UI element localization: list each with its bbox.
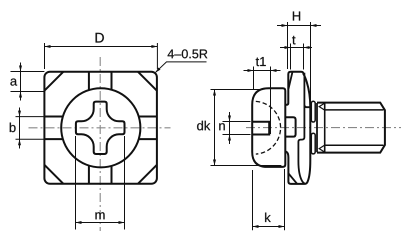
washer hole line right-lower horizontal — [138, 138, 157, 140]
washer hole line top-left vertical — [88, 72, 90, 90]
centerline axis (side view) — [246, 127, 401, 129]
dimension b extension lines — [16, 116, 45, 118]
dimension D label — [96, 33, 104, 43]
washer inner edge line — [298, 73, 305, 184]
corner chamfer top-right — [138, 72, 157, 91]
washer hole line left-lower horizontal — [44, 138, 62, 140]
dimension dk extension lines — [211, 89, 262, 91]
dimension b line with outside arrows — [19, 108, 21, 149]
thread minor line bottom — [324, 144, 384, 146]
dimension t1 extension lines — [253, 67, 255, 90]
dimension a label — [10, 79, 17, 86]
dimension D line — [45, 46, 158, 48]
dimension m line — [76, 222, 125, 224]
phillips cross recess — [76, 102, 125, 154]
corner chamfer bottom-left — [44, 165, 63, 184]
washer hole line bottom-right vertical — [111, 166, 113, 184]
corner chamfer bottom-right — [138, 165, 157, 184]
hidden recess arc (dashed) — [256, 101, 281, 154]
dimension H line with outside arrows — [277, 25, 321, 27]
dimension dk line — [214, 90, 216, 166]
washer side view outer profile — [286, 72, 311, 184]
screw head side view — [252, 88, 285, 167]
dimension H extension lines — [287, 22, 289, 69]
dimension n extension lines — [223, 121, 251, 123]
washer hole line bottom-left vertical — [88, 166, 90, 184]
centerline horizontal (front view) — [29, 127, 171, 129]
retaining ring upper lobe — [311, 101, 315, 122]
dimension t1 label — [256, 58, 259, 67]
washer fold line top — [289, 72, 293, 89]
neck end face — [316, 103, 318, 152]
thread full-form start — [324, 103, 326, 152]
dimension n line with outside arrows — [229, 112, 231, 144]
screw head circle — [61, 88, 140, 167]
dimension D extension lines — [44, 43, 46, 69]
dimension k extension lines — [252, 170, 254, 230]
thread minor line top — [324, 109, 384, 111]
dimension a extension line — [11, 91, 45, 93]
dimension k label — [265, 213, 271, 222]
dimension m label — [95, 212, 104, 219]
dimension H label — [293, 12, 300, 21]
neck boss — [285, 117, 295, 136]
retaining ring lower lobe — [311, 133, 315, 154]
washer hole line left-upper horizontal — [44, 116, 62, 118]
washer fold line bottom — [289, 174, 298, 184]
dimension t line with outside arrows — [280, 47, 312, 49]
centerline vertical (front view) — [99, 57, 101, 231]
leader 4-0.5R — [156, 62, 207, 72]
dimension a line with outside arrows — [20, 63, 22, 101]
dimension b label — [10, 123, 16, 133]
washer hole line top-right vertical — [111, 72, 113, 90]
dimension t label — [292, 36, 295, 45]
dimension dk label — [197, 121, 203, 131]
dimension k line — [253, 226, 285, 228]
dimension t1 line with outside arrows — [244, 70, 281, 72]
thread runout bottom — [319, 145, 325, 152]
dimension n label — [219, 123, 225, 130]
dimension m extension lines — [75, 136, 77, 230]
corner chamfer top-left — [44, 72, 63, 91]
washer inner edge tick — [304, 105, 310, 107]
washer hole line right-upper horizontal — [138, 116, 157, 118]
dimension t extension lines — [290, 44, 292, 70]
recess slot notch — [252, 122, 269, 135]
thread outline — [317, 103, 385, 153]
thread runout top — [319, 103, 325, 110]
square washer outline — [44, 72, 156, 184]
label 4-0.5R — [168, 50, 174, 59]
